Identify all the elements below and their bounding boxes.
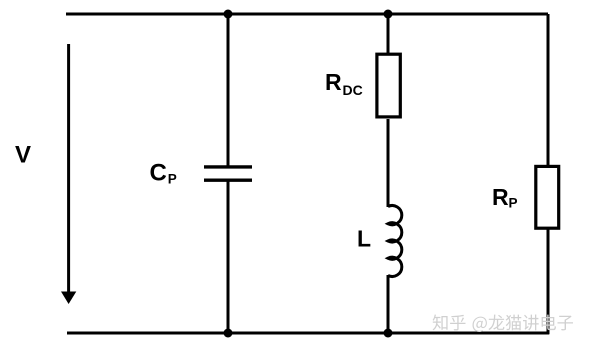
capacitor CP bbox=[204, 167, 252, 180]
label V bbox=[15, 142, 31, 169]
node bottom middle junction bbox=[384, 329, 393, 338]
node top middle junction bbox=[384, 10, 393, 19]
wire right branch lower bbox=[547, 229, 550, 334]
resistor RDC bbox=[377, 54, 400, 117]
wire capacitor branch upper bbox=[227, 14, 230, 167]
label CP bbox=[150, 160, 177, 187]
svg-text:R: R bbox=[325, 69, 342, 95]
label L bbox=[357, 226, 371, 252]
svg-text:P: P bbox=[509, 196, 518, 211]
wire capacitor branch lower bbox=[227, 180, 230, 333]
resistor RP bbox=[536, 166, 559, 228]
wire right branch upper bbox=[547, 14, 550, 166]
node top capacitor junction bbox=[224, 10, 233, 19]
node bottom capacitor junction bbox=[224, 329, 233, 338]
label RP bbox=[492, 184, 518, 211]
svg-text:P: P bbox=[168, 172, 177, 187]
svg-text:DC: DC bbox=[343, 82, 363, 98]
label RDC bbox=[325, 69, 363, 98]
svg-text:C: C bbox=[150, 160, 167, 187]
wire middle branch lower bbox=[387, 275, 390, 333]
svg-text:R: R bbox=[492, 184, 509, 210]
wire top rail bbox=[66, 13, 548, 16]
watermark 知乎 @龙猫讲电子 bbox=[433, 315, 573, 333]
wire middle branch upper bbox=[387, 14, 390, 54]
wire bottom rail bbox=[67, 332, 549, 335]
arrow V (voltage reference arrow) bbox=[61, 44, 76, 304]
inductor L bbox=[388, 206, 402, 277]
svg-text:V: V bbox=[15, 142, 31, 169]
wire between RDC and L bbox=[387, 119, 390, 207]
svg-text:L: L bbox=[357, 226, 371, 252]
